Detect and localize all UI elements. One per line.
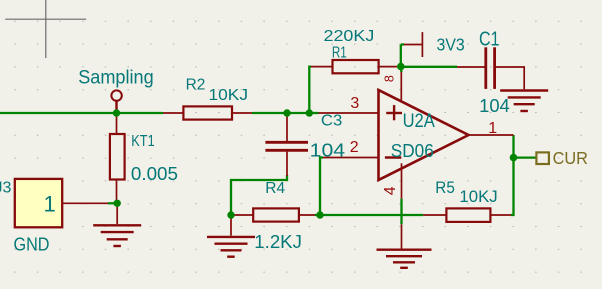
svg-text:R4: R4: [265, 180, 285, 197]
svg-text:0.005: 0.005: [131, 163, 178, 184]
svg-text:R5: R5: [435, 179, 455, 197]
svg-text:CUR: CUR: [553, 148, 588, 168]
svg-text:R2: R2: [186, 76, 206, 93]
svg-text:C3: C3: [321, 113, 342, 130]
svg-text:104: 104: [479, 95, 510, 116]
svg-text:1: 1: [488, 120, 497, 137]
svg-text:KT1: KT1: [131, 133, 154, 150]
svg-text:1.2KJ: 1.2KJ: [254, 231, 302, 252]
svg-text:C1: C1: [479, 29, 500, 51]
svg-text:10KJ: 10KJ: [459, 188, 497, 206]
svg-text:4: 4: [382, 186, 399, 195]
svg-text:U2A: U2A: [403, 111, 435, 132]
svg-text:10KJ: 10KJ: [209, 87, 249, 104]
svg-text:3V3: 3V3: [437, 34, 465, 54]
svg-text:104: 104: [310, 140, 345, 160]
svg-text:Sampling: Sampling: [78, 67, 154, 88]
svg-text:2: 2: [350, 139, 359, 156]
svg-text:220KJ: 220KJ: [324, 28, 375, 45]
svg-text:3: 3: [350, 95, 359, 112]
svg-text:SD06: SD06: [391, 140, 434, 161]
svg-text:J3: J3: [0, 179, 12, 196]
svg-text:8: 8: [382, 75, 396, 82]
svg-text:R1: R1: [332, 45, 347, 62]
svg-text:1: 1: [44, 191, 56, 216]
svg-text:GND: GND: [14, 233, 50, 254]
